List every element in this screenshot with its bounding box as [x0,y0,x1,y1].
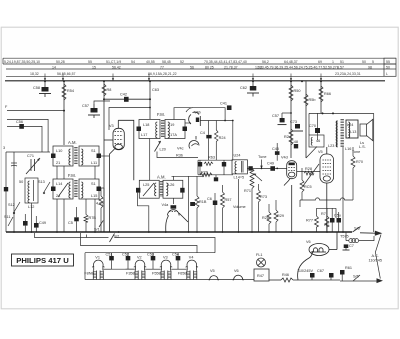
svg-text:L16: L16 [345,147,351,151]
svg-text:FL1: FL1 [256,253,263,257]
top band line 1 [3,57,396,59]
wires output area [300,121,353,232]
svg-text:S/6: S/6 [353,275,359,279]
svg-text:S1: S1 [91,149,96,153]
output stage outer box [309,113,374,232]
resistor R24 [215,121,217,131]
capacitor C70 [315,128,320,133]
capacitor C73 [293,124,303,131]
svg-text:58,45: 58,45 [162,60,171,64]
svg-text:V4d: V4d [281,156,288,160]
capacitor C62 [247,86,259,97]
heater link wires [85,253,254,280]
svg-text:R8: R8 [107,88,112,92]
capacitor AM IF right [180,188,184,193]
capacitor on FM left [51,187,56,192]
svg-text:C56: C56 [16,120,23,124]
wire left components to bus [25,203,36,232]
wire detector to V4d grid [247,167,287,169]
svg-text:40,55: 40,55 [146,60,155,64]
wires detector region [239,147,321,233]
capacitor C66 [213,201,218,206]
FM input transformer [53,179,99,199]
svg-text:S12: S12 [8,203,15,207]
svg-text:R7: R7 [321,212,326,216]
svg-text:R47: R47 [257,274,264,278]
capacitor C53 [151,256,156,260]
mains arrow bottom [377,278,384,283]
svg-text:L13: L13 [350,130,356,134]
diagonal AF wire 1 [306,147,317,159]
svg-text:L11: L11 [91,161,97,165]
wire V4d anode [297,171,320,173]
svg-text:55: 55 [88,60,92,64]
svg-text:S/2: S/2 [114,235,120,239]
svg-text:12 33,45,79,36,29,25,44,56,24: 12 33,45,79,36,29,25,44,56,24,75,25,40,7… [255,65,344,69]
svg-text:C6: C6 [207,197,212,201]
svg-text:C4: C4 [200,131,205,135]
svg-text:21,78,37: 21,78,37 [224,65,238,69]
svg-text:77: 77 [160,65,164,69]
svg-text:46: 46 [316,139,320,143]
svg-text:23,23A,24,33,31: 23,23A,24,33,31 [335,72,361,76]
capacitor C47 [208,121,210,135]
capacitor C53 [11,163,17,166]
resistor R28 [267,212,271,224]
top band row2 numbers [52,65,372,69]
resistor R28h [304,171,314,175]
tuning arrow L20 [155,142,161,152]
heater unit V1 [92,260,104,279]
svg-text:21: 21 [56,161,60,165]
svg-text:A.M.: A.M. [157,175,166,180]
svg-text:F8NB: F8NB [84,272,94,276]
svg-text:R46: R46 [282,273,289,277]
svg-text:L26: L26 [168,183,174,187]
rectifier V6 [298,232,337,280]
resistor R63 [204,162,213,166]
resistor R50 [289,85,293,101]
capacitor C64 [190,202,195,206]
left horizontal wires [6,111,64,232]
svg-text:C62: C62 [240,86,247,90]
svg-text:3: 3 [3,146,5,150]
coil box L12 [25,178,38,203]
pilot lamp FL1 [254,258,269,281]
heater return loop [35,233,216,253]
resistor R46 [281,278,293,282]
svg-text:L23: L23 [328,144,334,148]
svg-text:55: 55 [386,60,390,64]
resistor R54 [62,84,66,100]
svg-text:98: 98 [368,65,372,69]
capacitor on AM right [97,154,102,159]
svg-text:110/245: 110/245 [369,259,382,263]
top band row3 numbers [30,72,361,76]
resistor R29 [274,210,278,222]
volume pot R71 [250,168,254,188]
top band left tick [2,58,4,64]
wire to mains arrow [360,232,375,234]
resistor R58 [102,84,106,96]
AM input transformer [53,146,99,166]
svg-text:V3: V3 [163,256,168,260]
svg-text:F65B: F65B [178,272,188,276]
svg-text:A.C.: A.C. [372,254,379,258]
capacitor C47 [23,221,28,226]
switch S/13 [43,182,50,194]
svg-text:C42: C42 [120,93,127,97]
switch S/12 [13,202,20,214]
AM IF transformer [139,180,183,198]
svg-text:L19: L19 [168,123,174,127]
wire drop x321 [320,81,322,113]
top band line 2 [3,63,396,65]
svg-text:51: 51 [340,60,344,64]
svg-text:L17: L17 [141,133,147,137]
svg-text:56,42: 56,42 [112,65,121,69]
svg-text:C7: C7 [349,244,354,248]
svg-text:L.S.: L.S. [359,145,366,149]
svg-text:C49: C49 [39,221,46,225]
switch S/6 [353,275,360,281]
svg-text:50: 50 [386,65,390,69]
main chassis bus [6,231,352,233]
svg-text:R28: R28 [262,216,269,220]
junction dots on bus [13,231,344,233]
svg-text:86,9,15A,28,21,22: 86,9,15A,28,21,22 [148,72,177,76]
svg-text:50: 50 [19,180,23,184]
detector ladder wires [198,160,233,177]
svg-text:V1: V1 [95,256,100,260]
capacitor FM IF left [137,127,142,132]
svg-text:56: 56 [190,65,194,69]
svg-text:R66: R66 [324,92,331,96]
switch S/5 [353,227,361,233]
resistor RC5 [300,180,304,192]
svg-text:L: L [386,72,388,76]
svg-text:5: 5 [372,60,374,64]
capacitor C46 [214,177,218,181]
svg-text:R57: R57 [225,198,232,202]
svg-text:R24: R24 [219,136,226,140]
svg-text:56,55,66,57: 56,55,66,57 [57,72,76,76]
svg-text:24: 24 [56,194,60,198]
tube V4d [284,161,297,232]
capacitor C48 [294,144,298,148]
capacitor C54 [176,256,181,260]
wire y110.6 [7,110,64,112]
svg-text:L18: L18 [143,123,149,127]
svg-text:F.M.: F.M. [157,112,165,117]
wire drop x150 [149,81,151,119]
svg-text:64,48,37: 64,48,37 [284,60,298,64]
capacitor C66c [337,218,342,223]
svg-text:R2: R2 [284,135,289,139]
heater bump V5 [209,276,219,280]
capacitor on AM left [51,154,56,159]
wire drop x45 [44,81,46,87]
loudspeaker [360,119,373,140]
capacitor C51 [109,256,114,260]
svg-text:50: 50 [362,60,366,64]
svg-text:F35B: F35B [126,272,136,276]
svg-text:Tune: Tune [258,155,267,159]
svg-text:V4a: V4a [162,203,170,207]
wire y119.4 [7,119,48,152]
heater unit V4 [186,260,198,279]
resistor R66 [319,86,323,102]
svg-text:51,C7,1/9: 51,C7,1/9 [106,60,121,64]
triode V4b [189,112,201,126]
capacitor C43 [198,162,202,167]
variable capacitor C7 [26,158,40,174]
left edge verticals [5,152,7,232]
svg-text:V5: V5 [318,150,323,154]
svg-text:R7B: R7B [89,216,97,220]
top band row1 numbers [4,60,374,64]
svg-text:C49: C49 [267,162,274,166]
svg-text:50,28: 50,28 [56,60,65,64]
svg-text:C73: C73 [290,120,297,124]
diagonal AF wire 2 [303,164,319,186]
svg-text:69: 69 [318,60,322,64]
svg-text:110/245V: 110/245V [297,269,313,273]
svg-text:C63: C63 [152,88,159,92]
capacitor FM IF right [183,127,188,132]
heater unit V2 [134,260,146,279]
svg-text:V4b: V4b [194,111,201,115]
wire drop x64 [63,81,65,145]
svg-text:R29: R29 [277,214,284,218]
resistor R52 [99,196,103,208]
svg-text:54: 54 [131,60,135,64]
wire drop x306 [305,81,307,158]
svg-text:5,24,19,87,35,50,25,10: 5,24,19,87,35,50,25,10 [4,60,40,64]
svg-text:S1: S1 [91,182,96,186]
svg-text:L10: L10 [56,149,62,153]
capacitor C44 [222,162,226,167]
junction dots on rail [44,80,334,169]
svg-text:Tone: Tone [352,150,360,154]
wire to C57 [94,101,110,104]
svg-text:C48: C48 [291,140,298,144]
capacitor on FM right [97,187,102,192]
capacitor C57b [278,113,287,125]
svg-text:L20: L20 [160,148,166,152]
switch S/1 [99,221,103,228]
svg-text:U24: U24 [234,154,241,158]
svg-text:R63: R63 [208,156,215,160]
FM IF transformer [139,120,185,139]
fuse T575 [346,232,374,243]
svg-text:S/5: S/5 [354,227,360,231]
resistor R27 [289,129,293,145]
wire y126.4 [7,126,42,152]
svg-text:80 25: 80 25 [205,65,214,69]
svg-text:C5u: C5u [334,214,341,218]
capacitor C41 [227,105,232,110]
svg-text:V5: V5 [210,269,215,273]
svg-text:F55B: F55B [152,272,162,276]
capacitor C49b [270,166,275,171]
svg-text:V4: V4 [189,256,194,260]
resistor R7B [84,215,88,223]
triode V4a [166,205,188,231]
capacitor C4r [248,166,252,170]
capacitor C58 [39,87,51,97]
capacitor C52 [126,256,131,260]
top band line 3 [6,68,384,70]
svg-text:C58: C58 [33,86,40,90]
heater bump V6 [233,275,244,280]
heater unit V3 [160,260,172,279]
capacitor C55 [74,217,79,221]
svg-text:C70: C70 [309,124,316,128]
svg-text:18,32: 18,32 [30,72,39,76]
svg-text:56,2: 56,2 [262,60,269,64]
svg-text:70,35,44,43,41,47,83,47,40: 70,35,44,43,41,47,83,47,40 [204,60,247,64]
svg-text:RC5: RC5 [304,185,312,189]
svg-text:PHILIPS 417 U: PHILIPS 417 U [16,256,69,265]
svg-text:T575: T575 [340,235,349,239]
wire oscillator loop [109,108,150,131]
capacitor C54 [4,187,8,191]
band reference ticks [45,74,321,81]
svg-text:C71: C71 [27,154,34,158]
svg-text:R1B: R1B [199,200,207,204]
svg-text:R28: R28 [305,167,312,171]
svg-text:A.M.: A.M. [68,140,77,145]
svg-text:S13: S13 [38,180,45,184]
svg-text:14: 14 [52,65,56,69]
svg-text:L14: L14 [56,182,62,186]
resistor R70 [351,156,355,168]
svg-text:V6: V6 [306,240,311,244]
resistor R64 [195,196,199,208]
svg-text:C45: C45 [272,147,279,151]
svg-text:S11: S11 [4,215,10,219]
svg-text:C41: C41 [220,102,227,106]
svg-text:C57: C57 [82,104,89,108]
svg-text:4,25: 4,25 [96,202,103,206]
capacitor AM IF left [136,188,140,193]
capacitor C49 [34,223,39,228]
svg-text:L15: L15 [91,194,97,198]
svg-text:Volume: Volume [233,205,246,209]
triode V4c [189,136,199,149]
svg-text:V4c: V4c [177,147,184,151]
svg-text:15: 15 [92,65,96,69]
svg-text:52: 52 [180,60,184,64]
resistor R56 [304,94,308,106]
svg-text:R70: R70 [356,160,363,164]
switch S/11 [8,217,13,226]
top band line 4 [6,75,384,77]
PHILIPS 417 U box [12,254,74,266]
bottom mains line [340,280,377,282]
output transformer T1 [336,120,358,147]
wire drop x104 [103,81,105,232]
svg-text:R50: R50 [294,89,301,93]
capacitor C45 [276,143,278,151]
mains arrow top [375,231,383,236]
svg-text:L17A: L17A [168,133,177,137]
svg-text:C67: C67 [317,269,324,273]
svg-text:L25: L25 [143,183,149,187]
svg-text:R7: R7 [324,223,329,227]
HT rail [5,80,385,82]
capacitor C42 [104,97,150,102]
top band right boxes [384,58,396,76]
wire drop x253 [252,81,254,86]
svg-text:F.M.: F.M. [68,173,76,178]
capacitor C66b [330,218,335,223]
capacitor C71b [344,244,349,248]
detector box L21 L22 [232,160,247,174]
svg-text:R77: R77 [306,219,313,223]
tube V3 [104,120,134,232]
svg-text:R54: R54 [67,89,74,93]
svg-text:R73: R73 [260,195,267,199]
resistor R78 [325,216,329,227]
wire drop x291 [290,81,292,158]
mains zigzag lead [375,235,381,279]
svg-text:C5: C5 [68,221,73,225]
svg-text:C57: C57 [272,114,279,118]
svg-text:V3: V3 [109,124,114,128]
resistor R65 [221,192,225,208]
svg-text:V6: V6 [234,269,239,273]
wire L20 to ladder [157,152,198,158]
svg-text:L14=5: L14=5 [234,176,245,180]
capacitor C56 [19,124,24,129]
svg-text:R61: R61 [345,266,352,270]
tube V5 [320,147,334,232]
tuner block wires [57,156,109,232]
capacitor C57 [88,104,100,118]
box L23 [309,135,324,147]
svg-text:R71: R71 [244,189,251,193]
svg-text:1: 1 [332,60,334,64]
svg-text:R5b: R5b [309,98,316,102]
resistor R73 [257,190,261,202]
svg-text:L24: L24 [347,123,353,127]
wires AM IF [138,139,205,233]
svg-text:V2: V2 [137,256,142,260]
switch S/2 [110,234,115,243]
svg-text:R3b: R3b [176,154,183,158]
resistor R77b [315,216,319,227]
wires around V4b [174,108,233,160]
